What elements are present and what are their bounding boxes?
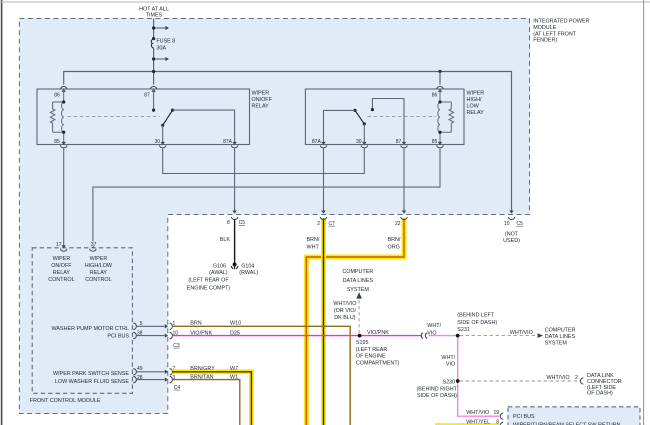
svg-text:DK BLU): DK BLU) [334,315,355,321]
wire: BRN/WHT from C7 pin 2 (yellow highlight) [321,218,326,425]
svg-text:PCI BUS: PCI BUS [513,414,535,420]
svg-text:87A: 87A [223,139,233,145]
dashed actuation line (on/off relay) [68,116,161,118]
wire: VIO/PNK D25 PCI bus [172,331,421,337]
splice S231 [456,313,498,338]
label WHT/VIO between S231 and S230 [441,355,455,367]
svg-text:WHT/: WHT/ [427,323,441,329]
relay coil K1 with parallel resistor [50,89,63,145]
svg-text:87: 87 [144,92,150,98]
svg-text:49: 49 [137,366,143,372]
svg-text:37: 37 [91,242,97,248]
svg-text:WHT: WHT [307,245,320,251]
svg-text:WIPER: WIPER [53,256,71,262]
dashed reference: S231 to computer data lines system [460,327,576,346]
svg-text:SIDE OF DASH): SIDE OF DASH) [457,320,497,326]
svg-text:BRN/: BRN/ [388,237,401,243]
wire: C5 pin 10 arrow (not used) [503,211,523,244]
svg-text:W7: W7 [230,366,238,372]
svg-text:SYSTEM: SYSTEM [545,340,568,346]
wire: WHT/VIO into PCI bus box pin 19 [466,410,503,419]
svg-text:C4: C4 [174,385,181,391]
wire: on/off relay 30 to high/low relay 30 [163,148,365,173]
svg-text:C7: C7 [329,221,336,227]
svg-text:C5: C5 [517,221,524,227]
FCM pin 37 [90,242,97,251]
svg-text:S231: S231 [457,327,470,333]
svg-text:G104: G104 [241,264,254,270]
splice S230 [416,379,459,399]
svg-text:85: 85 [432,139,438,145]
svg-text:DATA LINES: DATA LINES [545,334,576,340]
connector cup C7 pin 2 [320,217,326,220]
svg-text:G106: G106 [213,264,226,270]
svg-text:LOW WASHER FLUID SENSE: LOW WASHER FLUID SENSE [55,379,129,385]
svg-text:RELAY: RELAY [467,110,485,116]
connector C5 pin 8 [227,217,245,226]
svg-text:28: 28 [137,375,143,381]
svg-text:BRN: BRN [190,321,201,327]
svg-text:5: 5 [140,321,143,327]
svg-text:86: 86 [54,92,60,98]
svg-text:WHT/VIO: WHT/VIO [510,330,533,336]
pin 87A (wiper high/low relay) [312,139,327,148]
PCI bus box (wiper switch) [508,407,640,425]
FCM pin 28 stub to connector C4 pin 3 [133,375,175,383]
relay armature to 87A contact and wire to pin 87A (high/low relay) [324,109,366,145]
svg-text:ORG: ORG [388,245,400,251]
svg-text:8: 8 [227,220,230,226]
svg-text:COMPUTER: COMPUTER [342,269,373,275]
FCM pin 49 stub to connector C4 pin 7 [133,366,175,375]
svg-text:C5: C5 [239,220,246,226]
svg-text:BRN/GRY: BRN/GRY [190,366,215,372]
svg-text:WIPER PARK SWITCH SENSE: WIPER PARK SWITCH SENSE [53,371,129,377]
svg-text:(AT LEFT FRONT: (AT LEFT FRONT [533,31,577,37]
pin 87A (wiper on/off relay) [223,139,238,148]
svg-text:38: 38 [137,331,143,337]
inline connector on PCI bus (VIO/PNK to WHT/VIO) [421,323,441,339]
svg-text:FUSE 8: FUSE 8 [156,38,175,44]
svg-text:WIPER: WIPER [467,90,485,96]
page border frame [1,0,3,425]
wiper high/low relay box [305,89,484,145]
svg-text:COMPARTMENT): COMPARTMENT) [356,361,400,367]
pin 86 (wiper high/low relay) [432,86,443,98]
svg-text:TIMES: TIMES [146,12,163,18]
wire: on/off relay 85 down to FCM pin 17 [63,148,65,247]
dashed actuation line (high/low relay) [368,116,436,118]
wire: fused feed bus to both relays and C5 pin 10 [64,70,512,213]
svg-text:WHT/VIO: WHT/VIO [546,375,569,381]
label BRN/WHT [307,237,320,251]
svg-text:SIDE OF DASH): SIDE OF DASH) [417,393,457,399]
pin 85 (wiper high/low relay) [432,139,443,148]
pin 30 (wiper high/low relay) [356,139,367,148]
svg-text:87: 87 [396,139,402,145]
svg-text:WHT/VIO: WHT/VIO [333,301,356,307]
svg-text:FRONT CONTROL MODULE: FRONT CONTROL MODULE [30,398,101,404]
svg-text:W1: W1 [230,375,238,381]
svg-text:(LEFT REAR OF: (LEFT REAR OF [188,277,229,283]
svg-text:19: 19 [493,410,499,416]
svg-text:INTEGRATED POWER: INTEGRATED POWER [533,19,589,25]
wire: branch arrow feed lower [152,57,169,61]
svg-text:30: 30 [154,139,160,145]
wire: BRN/TAN W1 low washer fluid [172,375,240,425]
wire: FCM pin 37 up and over to high/low relay 85 [93,148,440,247]
svg-text:C3: C3 [173,343,180,349]
svg-text:FENDER): FENDER) [533,38,557,44]
pin 86 (wiper on/off relay) [54,87,67,99]
wire: branch arrow feed upper [152,26,169,30]
wire: high/low relay 87 down to C7 pin 22 [402,148,406,213]
IPM label: INTEGRATED POWER MODULE (AT LEFT FRONT FENDER) [533,19,589,44]
label BRN/ORG [388,237,401,251]
svg-text:10: 10 [504,221,510,227]
wire: WHT/VIO from connector to S231 then S230 then PCI bus box [429,336,500,417]
svg-text:WIPER: WIPER [252,90,270,96]
svg-text:ON/OFF: ON/OFF [252,97,273,103]
svg-text:RELAY: RELAY [53,270,71,276]
svg-text:85: 85 [54,139,60,145]
svg-text:(NOT: (NOT [505,231,519,237]
ground G106 / G104 [187,263,259,292]
pin 85 (wiper on/off relay) [54,139,67,148]
svg-text:OF DASH): OF DASH) [587,391,613,397]
wire: BLK ground wire from C5 pin 8 [220,220,235,265]
svg-text:BRN/TAN: BRN/TAN [190,375,213,381]
dashed reference: S230 to data link connector [460,373,622,396]
relay armature to 87A contact and wire to pin 87A [161,109,235,145]
pin 30 (wiper on/off relay) [154,139,165,148]
integrated power module enclosure (blue L-shaped dashed box) [19,19,529,414]
svg-text:87A: 87A [312,139,322,145]
svg-text:D25: D25 [230,331,240,337]
pin 87 (wiper high/low relay) [396,139,407,148]
svg-text:USED): USED) [503,238,520,244]
svg-text:VIO/PNK: VIO/PNK [190,331,212,337]
wiper on/off relay box [37,89,273,145]
svg-text:COMPUTER: COMPUTER [545,327,576,333]
pin 87 (wiper on/off relay) [144,87,157,99]
dashed reference: computer data lines system (up from S195) [333,269,373,334]
svg-text:S195: S195 [356,340,369,346]
svg-text:WHT/YEL: WHT/YEL [466,419,490,425]
svg-text:OF ENGINE: OF ENGINE [356,354,386,360]
wire: high/low relay 87A down to C7 pin 2 [321,148,325,213]
svg-text:WHT/VIO: WHT/VIO [466,410,489,416]
splice S195 on PCI bus [356,330,400,366]
svg-text:86: 86 [432,92,438,98]
svg-text:(BEHIND LEFT: (BEHIND LEFT [457,313,495,319]
svg-text:8: 8 [496,419,499,425]
svg-text:30: 30 [356,139,362,145]
svg-text:WIPER: WIPER [90,256,108,262]
node: HOT AT ALL TIMES [139,7,169,19]
svg-text:17: 17 [56,242,62,248]
relay coil K2 with parallel resistor [438,89,454,145]
svg-text:VIO: VIO [446,361,455,367]
front control module box [30,248,133,404]
svg-text:(BEHIND RIGHT: (BEHIND RIGHT [416,387,457,393]
svg-text:MODULE: MODULE [533,25,556,31]
svg-text:LOW: LOW [467,103,480,109]
svg-text:(OR VIO/: (OR VIO/ [334,308,357,314]
wire: BRN/GRY W7 wiper park switch (yellow highlight) [172,366,251,425]
wire: WHT/YEL into PCI bus box pin 8 (yellow highlight) [438,419,504,425]
svg-text:WHT/: WHT/ [441,355,455,361]
wire: BRN W10 washer pump feed [172,321,350,425]
connector C7 pin 2 [317,221,335,227]
fuse F8 30A [151,37,175,52]
FCM pin 38 stub to connector C3 pin 10 [133,331,178,339]
svg-text:S230: S230 [443,380,456,386]
svg-text:CONTROL: CONTROL [85,277,111,283]
svg-text:W10: W10 [230,321,241,327]
svg-text:BRN/: BRN/ [307,237,320,243]
connector cup C7 pin 22 [401,217,407,220]
svg-text:HIGH/LOW: HIGH/LOW [85,263,113,269]
relay contact: 87 stationary contact [152,89,155,112]
wire: BRN/ORG from C7 pin 22 (yellow highlight) [306,218,404,425]
svg-text:DATA LINES: DATA LINES [343,278,374,284]
svg-text:(LEFT REAR: (LEFT REAR [356,347,387,353]
svg-text:VIO/PNK: VIO/PNK [367,330,389,336]
svg-text:2: 2 [317,221,320,227]
svg-text:HIGH/: HIGH/ [467,97,482,103]
svg-text:BLK: BLK [220,237,231,243]
svg-text:RELAY: RELAY [252,103,270,109]
FCM internal labels [48,256,129,385]
svg-text:2: 2 [575,375,578,381]
svg-text:ENGINE COMPT): ENGINE COMPT) [187,286,231,292]
svg-text:CONTROL: CONTROL [48,277,74,283]
wire: battery feed down from hot bus to fuse [153,19,155,85]
svg-text:RELAY: RELAY [90,270,108,276]
FCM pin 17 [56,242,67,251]
wire: on/off relay 87A down to C5 pin 8 [232,148,236,213]
relay contact: 87 stationary contact (high/low relay) [371,99,404,145]
svg-text:(AWAL): (AWAL) [209,270,228,276]
svg-text:ON/OFF: ON/OFF [51,263,72,269]
svg-text:(RWAL): (RWAL) [239,270,258,276]
svg-text:30A: 30A [156,46,166,52]
svg-text:WASHER PUMP MOTOR CTRL: WASHER PUMP MOTOR CTRL [52,326,129,332]
FCM pin 5 stub to connector C3 pin 1 [133,321,175,330]
svg-text:SYSTEM: SYSTEM [347,287,370,293]
svg-text:PCI BUS: PCI BUS [107,334,129,340]
svg-text:22: 22 [395,221,401,227]
